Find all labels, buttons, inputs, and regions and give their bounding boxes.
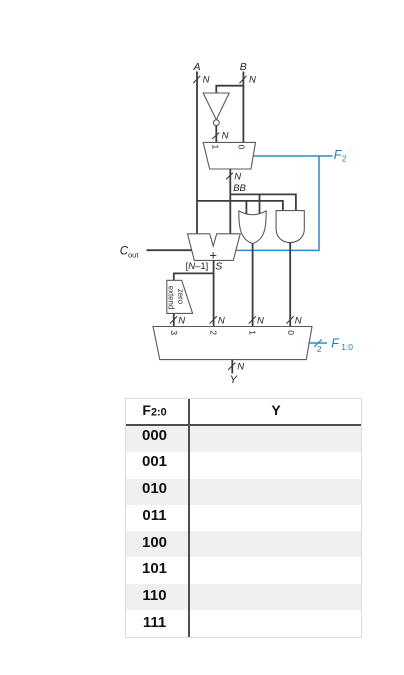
svg-text:N: N xyxy=(203,75,210,86)
svg-text:F: F xyxy=(331,336,340,350)
wire OR output to mux input 1 xyxy=(252,244,254,327)
mux (2:1) B / notB xyxy=(203,142,255,169)
inverter (NOT gate) xyxy=(203,93,229,126)
svg-text:2: 2 xyxy=(209,330,219,335)
svg-text:0: 0 xyxy=(236,145,246,150)
wire A drop to OR input xyxy=(245,201,247,214)
svg-text:B: B xyxy=(240,61,247,73)
wire F2 to adder carry-in (blue) xyxy=(236,156,319,250)
wire AND output to mux input 0 xyxy=(289,243,291,327)
truth table F2:0 vs Y xyxy=(125,398,362,638)
node F1:0 label xyxy=(331,336,353,352)
wire S branch to zero extend xyxy=(174,273,214,280)
bus slash B with width N xyxy=(240,75,257,86)
svg-text:0: 0 xyxy=(286,330,296,335)
svg-text:2: 2 xyxy=(317,344,322,354)
svg-text:out: out xyxy=(128,250,139,259)
AND gate xyxy=(276,211,304,243)
wire A rail to gates xyxy=(197,201,283,211)
table row 010 xyxy=(126,479,361,505)
svg-text:1: 1 xyxy=(248,330,258,335)
svg-text:N: N xyxy=(295,316,302,327)
bus slash BB with width N xyxy=(226,171,241,182)
svg-text:S: S xyxy=(215,260,222,272)
wire inverter output to mux xyxy=(215,126,217,143)
table column divider xyxy=(188,399,190,637)
svg-text:3: 3 xyxy=(169,330,179,335)
svg-text:N: N xyxy=(257,316,264,327)
svg-text:A: A xyxy=(192,61,200,73)
wire BB drop to OR input xyxy=(259,194,261,214)
svg-text:N: N xyxy=(237,362,244,373)
node BB label xyxy=(233,183,246,194)
svg-text:N: N xyxy=(222,130,229,141)
bus slash input 1 with width N xyxy=(249,316,264,327)
wire Cout xyxy=(147,249,192,251)
bus slash A with width N xyxy=(193,75,210,86)
table row 000 xyxy=(126,426,361,452)
OR gate xyxy=(239,211,266,244)
wire B vertical xyxy=(242,72,244,143)
node [N-1] label xyxy=(186,261,209,272)
node Cout label xyxy=(120,246,140,260)
wire B branch to inverter xyxy=(216,86,243,93)
mux (4:1) result selector xyxy=(153,327,312,360)
wire F2 select (blue) xyxy=(253,155,332,157)
table row 100 xyxy=(126,531,361,557)
wire zero extend to mux input 3 xyxy=(173,313,175,326)
wire BB rail to gates xyxy=(231,194,296,210)
table header row xyxy=(126,399,361,426)
svg-text:[N–1]: [N–1] xyxy=(186,261,209,272)
svg-text:N: N xyxy=(178,316,185,327)
node Y label xyxy=(230,374,238,386)
table row 011 xyxy=(126,505,361,531)
wire A vertical xyxy=(196,72,198,234)
svg-text:2: 2 xyxy=(342,154,347,163)
svg-text:N: N xyxy=(218,316,225,327)
table row 001 xyxy=(126,452,361,478)
node A xyxy=(192,61,200,73)
svg-text:extend: extend xyxy=(166,286,175,309)
node F2 label xyxy=(334,148,347,164)
svg-text:1:0: 1:0 xyxy=(341,342,353,352)
wire Y output xyxy=(231,360,233,374)
bus slash Y with width N xyxy=(228,362,244,373)
bus slash inverter output with width N xyxy=(212,130,229,141)
svg-text:N: N xyxy=(234,171,241,182)
svg-text:1: 1 xyxy=(210,145,220,150)
wire adder sum S to mux xyxy=(213,260,215,326)
wire F1:0 select (blue) xyxy=(308,342,327,344)
wire BB mux output xyxy=(229,169,231,234)
zero extend block xyxy=(166,280,192,313)
adder xyxy=(188,234,241,263)
bus slash input 3 with width N xyxy=(170,316,185,327)
svg-text:BB: BB xyxy=(233,183,246,194)
bus slash F1:0 width 2 (blue) xyxy=(314,339,322,354)
table row 111 xyxy=(126,610,361,636)
node B xyxy=(240,61,247,73)
node S label xyxy=(215,260,222,272)
svg-text:zero: zero xyxy=(176,289,185,305)
table row 110 xyxy=(126,584,361,610)
bus slash input 2 with width N xyxy=(210,316,225,327)
bus slash input 0 with width N xyxy=(287,316,302,327)
table row 101 xyxy=(126,558,361,584)
svg-text:N: N xyxy=(249,75,256,86)
svg-text:Y: Y xyxy=(230,374,238,386)
